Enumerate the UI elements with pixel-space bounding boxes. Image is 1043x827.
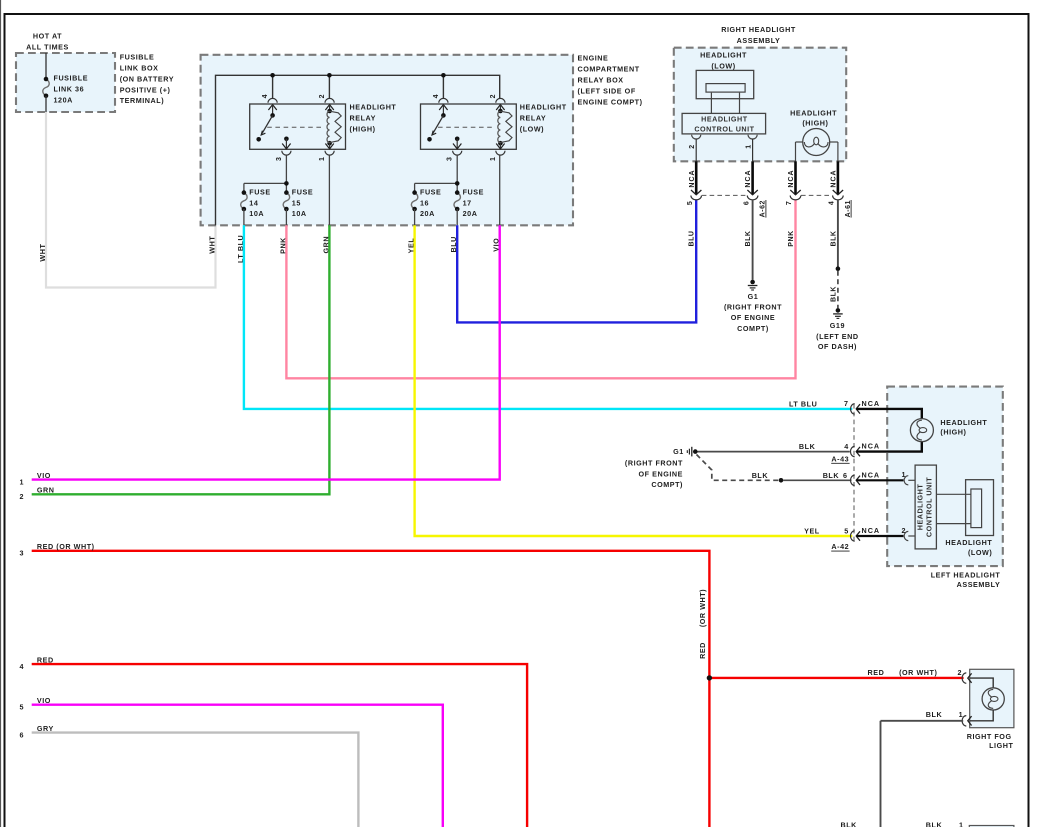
svg-text:PNK: PNK bbox=[788, 230, 795, 246]
svg-text:(LEFT SIDE OF: (LEFT SIDE OF bbox=[578, 86, 636, 95]
svg-text:ASSEMBLY: ASSEMBLY bbox=[737, 36, 781, 45]
svg-text:BLK: BLK bbox=[926, 821, 943, 827]
svg-text:NCA: NCA bbox=[862, 526, 881, 535]
svg-text:LINK BOX: LINK BOX bbox=[120, 64, 159, 73]
svg-text:RED: RED bbox=[868, 668, 885, 677]
svg-text:HEADLIGHT: HEADLIGHT bbox=[940, 418, 987, 427]
svg-text:(LOW): (LOW) bbox=[968, 548, 992, 557]
svg-text:LT BLU: LT BLU bbox=[789, 399, 817, 408]
svg-text:FUSE: FUSE bbox=[463, 187, 484, 196]
svg-text:BLK: BLK bbox=[830, 230, 837, 246]
svg-text:TERMINAL): TERMINAL) bbox=[120, 96, 165, 105]
svg-text:RED (OR WHT): RED (OR WHT) bbox=[37, 542, 95, 551]
svg-text:(LOW): (LOW) bbox=[711, 61, 735, 70]
svg-text:5: 5 bbox=[687, 201, 694, 205]
svg-text:(LOW): (LOW) bbox=[520, 125, 544, 134]
svg-text:(RIGHT FRONT: (RIGHT FRONT bbox=[625, 458, 683, 467]
svg-text:2: 2 bbox=[20, 492, 25, 501]
svg-text:6: 6 bbox=[20, 731, 25, 740]
svg-text:HEADLIGHT: HEADLIGHT bbox=[915, 484, 924, 531]
svg-text:FUSIBLE: FUSIBLE bbox=[120, 53, 155, 62]
svg-text:2: 2 bbox=[902, 526, 907, 535]
svg-text:4: 4 bbox=[20, 662, 25, 671]
svg-text:HEADLIGHT: HEADLIGHT bbox=[520, 103, 567, 112]
svg-text:4: 4 bbox=[262, 94, 269, 98]
svg-text:HEADLIGHT: HEADLIGHT bbox=[701, 115, 748, 124]
svg-text:VIO: VIO bbox=[37, 696, 51, 705]
svg-text:A-43: A-43 bbox=[831, 454, 849, 463]
svg-text:7: 7 bbox=[844, 399, 849, 408]
svg-text:BLK: BLK bbox=[745, 230, 752, 246]
svg-text:G1: G1 bbox=[748, 292, 759, 301]
svg-text:16: 16 bbox=[420, 198, 429, 207]
svg-text:NCA: NCA bbox=[862, 399, 881, 408]
svg-text:ALL TIMES: ALL TIMES bbox=[26, 43, 69, 52]
svg-text:HEADLIGHT: HEADLIGHT bbox=[790, 109, 837, 118]
svg-text:(HIGH): (HIGH) bbox=[802, 119, 828, 128]
svg-text:3: 3 bbox=[20, 549, 25, 558]
svg-text:RED: RED bbox=[37, 655, 54, 664]
svg-text:17: 17 bbox=[463, 198, 472, 207]
svg-text:6: 6 bbox=[743, 201, 750, 205]
svg-text:FUSE: FUSE bbox=[249, 187, 270, 196]
svg-text:RIGHT HEADLIGHT: RIGHT HEADLIGHT bbox=[721, 25, 796, 34]
svg-text:NCA: NCA bbox=[689, 169, 696, 187]
svg-text:HOT AT: HOT AT bbox=[33, 32, 62, 41]
svg-text:YEL: YEL bbox=[804, 527, 820, 536]
svg-text:VIO: VIO bbox=[37, 471, 51, 480]
svg-text:LIGHT: LIGHT bbox=[989, 741, 1013, 750]
svg-text:OF ENGINE: OF ENGINE bbox=[639, 469, 684, 478]
svg-text:4: 4 bbox=[433, 94, 440, 98]
svg-text:NCA: NCA bbox=[745, 169, 752, 187]
svg-text:2: 2 bbox=[689, 144, 696, 148]
svg-text:BLK: BLK bbox=[799, 442, 816, 451]
svg-text:CONTROL UNIT: CONTROL UNIT bbox=[694, 124, 754, 133]
svg-text:WHT: WHT bbox=[208, 236, 217, 254]
svg-text:2: 2 bbox=[319, 94, 326, 98]
svg-text:A-42: A-42 bbox=[831, 542, 849, 551]
svg-text:ENGINE: ENGINE bbox=[578, 54, 609, 63]
svg-text:FUSE: FUSE bbox=[292, 187, 313, 196]
svg-text:1: 1 bbox=[490, 157, 497, 161]
svg-text:20A: 20A bbox=[420, 209, 435, 218]
svg-text:COMPARTMENT: COMPARTMENT bbox=[578, 65, 640, 74]
svg-text:POSITIVE (+): POSITIVE (+) bbox=[120, 85, 171, 94]
svg-text:NCA: NCA bbox=[862, 470, 881, 479]
svg-text:(LEFT END: (LEFT END bbox=[816, 332, 858, 341]
svg-text:(RIGHT FRONT: (RIGHT FRONT bbox=[724, 302, 782, 311]
svg-text:(OR WHT): (OR WHT) bbox=[698, 589, 707, 627]
svg-text:1: 1 bbox=[902, 470, 907, 479]
svg-text:OF DASH): OF DASH) bbox=[818, 342, 857, 351]
svg-text:1: 1 bbox=[959, 710, 964, 719]
svg-text:ENGINE COMPT): ENGINE COMPT) bbox=[578, 97, 643, 106]
svg-text:RIGHT FOG: RIGHT FOG bbox=[967, 732, 1012, 741]
svg-text:(HIGH): (HIGH) bbox=[940, 428, 966, 437]
svg-text:LEFT HEADLIGHT: LEFT HEADLIGHT bbox=[931, 571, 1001, 580]
svg-text:BLK: BLK bbox=[823, 471, 840, 480]
svg-text:BLK: BLK bbox=[831, 286, 838, 302]
svg-text:BLK: BLK bbox=[840, 821, 857, 827]
svg-text:FUSE: FUSE bbox=[420, 187, 441, 196]
svg-text:RELAY: RELAY bbox=[350, 114, 376, 123]
svg-text:20A: 20A bbox=[463, 209, 478, 218]
svg-text:RED: RED bbox=[698, 642, 707, 659]
svg-text:(HIGH): (HIGH) bbox=[350, 125, 376, 134]
svg-text:BLU: BLU bbox=[689, 230, 696, 246]
svg-text:COMPT): COMPT) bbox=[737, 324, 769, 333]
svg-text:4: 4 bbox=[844, 442, 849, 451]
svg-text:GRY: GRY bbox=[37, 724, 54, 733]
svg-text:3: 3 bbox=[447, 157, 454, 161]
svg-text:2: 2 bbox=[490, 94, 497, 98]
svg-text:HEADLIGHT: HEADLIGHT bbox=[700, 51, 747, 60]
svg-text:BLK: BLK bbox=[926, 710, 943, 719]
svg-text:HEADLIGHT: HEADLIGHT bbox=[945, 538, 992, 547]
svg-text:2: 2 bbox=[958, 668, 963, 677]
svg-text:NCA: NCA bbox=[788, 169, 795, 187]
svg-text:1: 1 bbox=[319, 157, 326, 161]
svg-text:3: 3 bbox=[276, 157, 283, 161]
svg-text:GRN: GRN bbox=[37, 486, 55, 495]
svg-text:10A: 10A bbox=[292, 209, 307, 218]
svg-text:NCA: NCA bbox=[862, 442, 881, 451]
svg-text:120A: 120A bbox=[54, 96, 73, 105]
svg-text:COMPT): COMPT) bbox=[651, 480, 683, 489]
svg-text:5: 5 bbox=[844, 527, 849, 536]
svg-text:NCA: NCA bbox=[831, 169, 838, 187]
svg-text:1: 1 bbox=[20, 478, 25, 487]
svg-text:FUSIBLE: FUSIBLE bbox=[54, 74, 89, 83]
svg-text:CONTROL UNIT: CONTROL UNIT bbox=[924, 477, 933, 537]
svg-text:RELAY BOX: RELAY BOX bbox=[578, 76, 624, 85]
svg-text:1: 1 bbox=[746, 144, 753, 148]
svg-text:OF ENGINE: OF ENGINE bbox=[731, 313, 776, 322]
svg-text:HEADLIGHT: HEADLIGHT bbox=[350, 103, 397, 112]
svg-text:(OR WHT): (OR WHT) bbox=[899, 668, 937, 677]
svg-text:6: 6 bbox=[843, 471, 848, 480]
svg-text:14: 14 bbox=[249, 198, 258, 207]
svg-text:7: 7 bbox=[786, 201, 793, 205]
svg-text:BLK: BLK bbox=[752, 471, 769, 480]
svg-text:1: 1 bbox=[959, 821, 964, 827]
svg-text:5: 5 bbox=[20, 703, 25, 712]
svg-text:WHT: WHT bbox=[38, 244, 47, 262]
svg-text:15: 15 bbox=[292, 198, 301, 207]
svg-text:G1: G1 bbox=[673, 447, 684, 456]
svg-text:RELAY: RELAY bbox=[520, 114, 546, 123]
svg-text:10A: 10A bbox=[249, 209, 264, 218]
svg-text:4: 4 bbox=[829, 201, 836, 205]
svg-text:ASSEMBLY: ASSEMBLY bbox=[957, 580, 1001, 589]
svg-text:G19: G19 bbox=[830, 321, 845, 330]
svg-text:(ON BATTERY: (ON BATTERY bbox=[120, 74, 174, 83]
svg-text:LINK 36: LINK 36 bbox=[54, 85, 85, 94]
